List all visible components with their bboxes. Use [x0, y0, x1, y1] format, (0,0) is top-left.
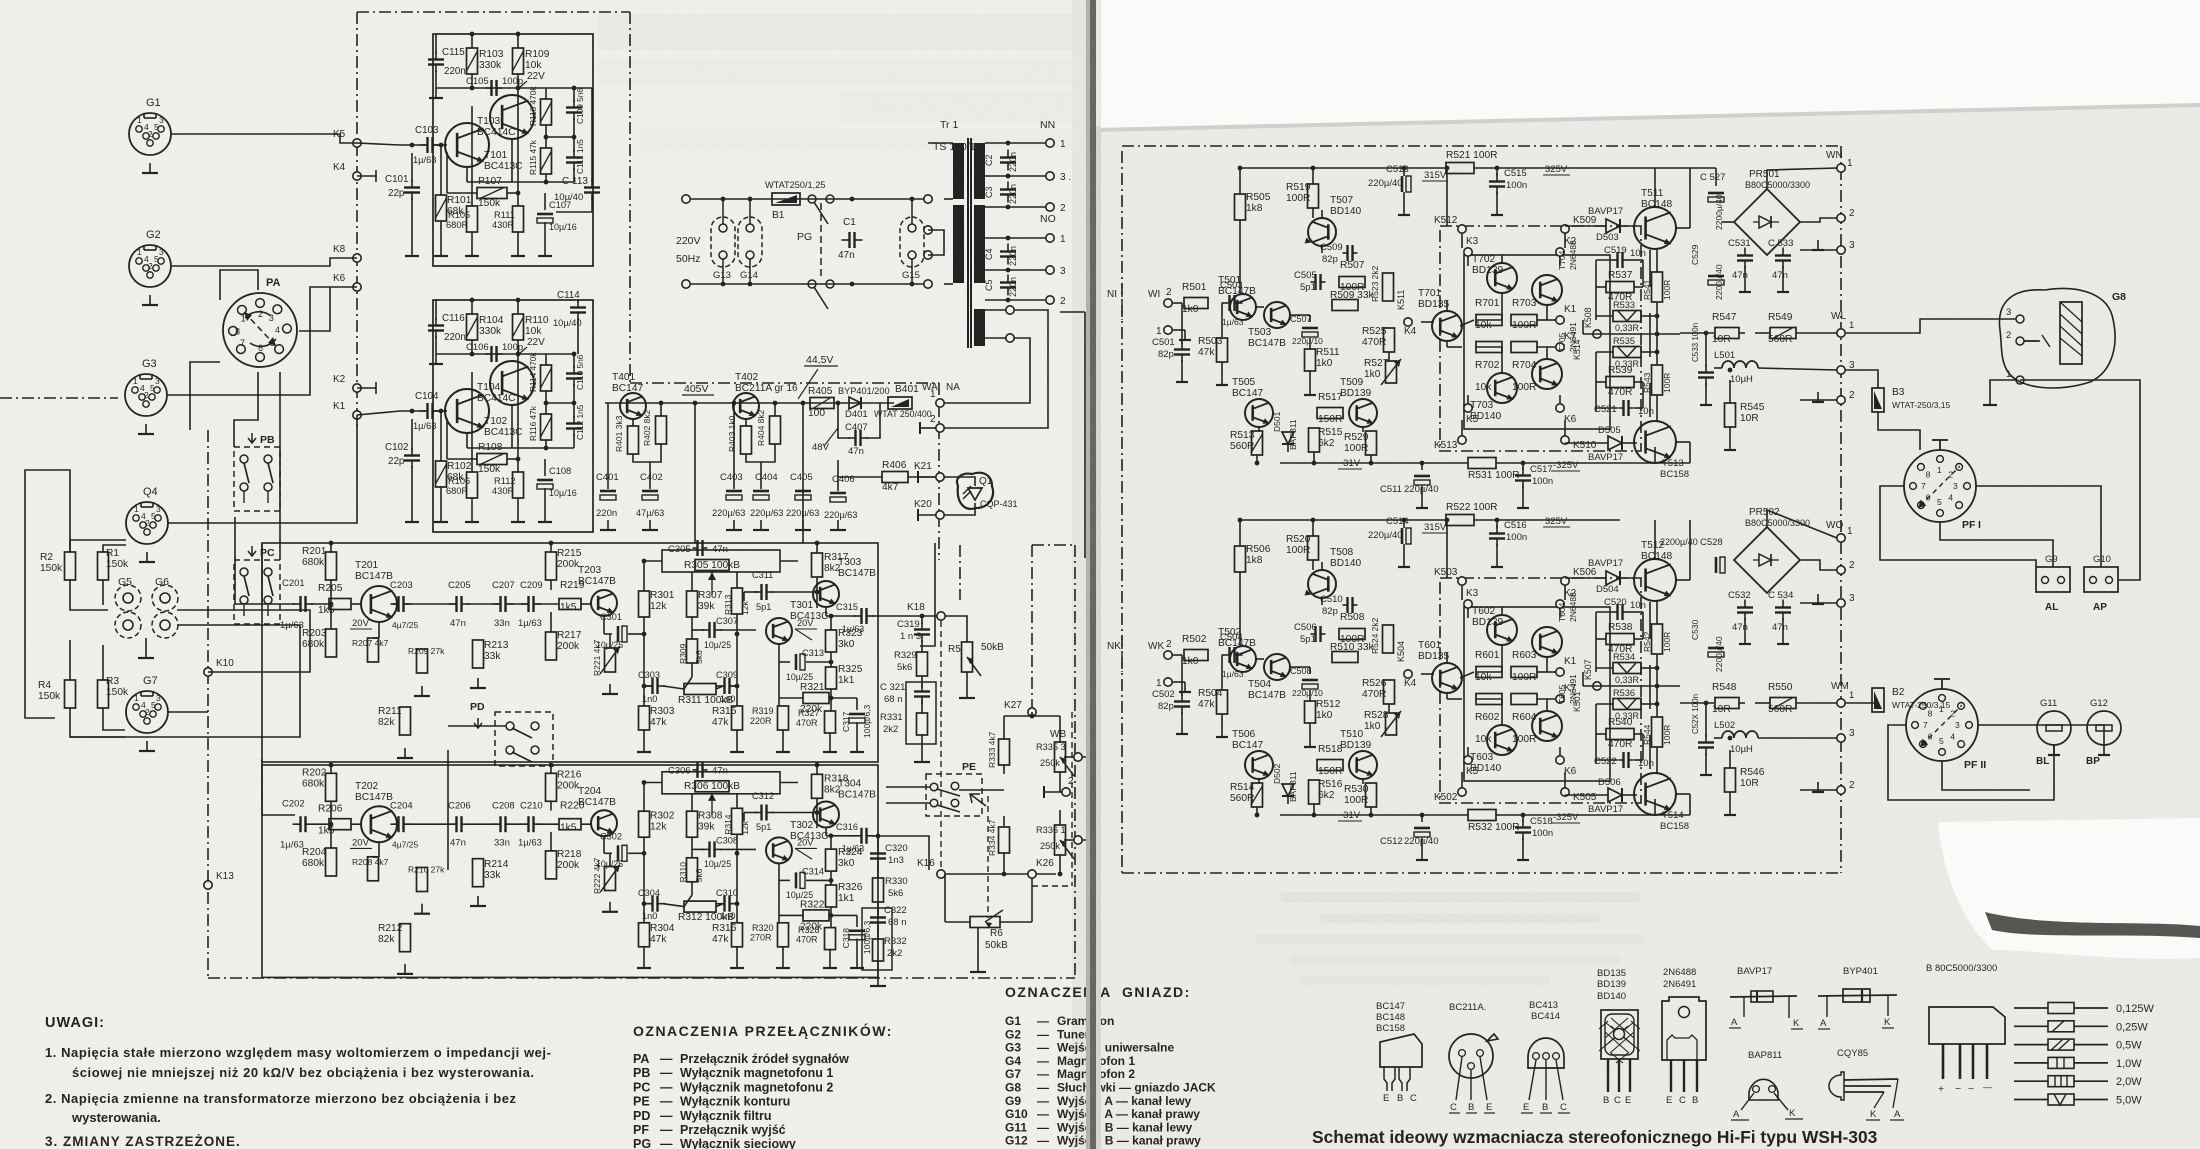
- ground: [1817, 392, 1819, 402]
- wire: [546, 136, 574, 138]
- capacitor C306 47n: [696, 762, 698, 778]
- wire: [1474, 167, 1620, 169]
- wire: [1258, 779, 1260, 783]
- wire: [507, 458, 518, 460]
- resistor R326 1k1: [826, 885, 837, 907]
- ground: [1496, 557, 1498, 567]
- junction: [748, 282, 753, 287]
- capacitor C518 100n: [1515, 826, 1531, 828]
- transformer Tr1 secondary winding: [974, 143, 985, 199]
- resistor R402 8k2: [656, 416, 667, 444]
- wire: [1705, 703, 1707, 737]
- wire: [643, 946, 645, 958]
- ground: [829, 958, 831, 968]
- wire: [507, 823, 527, 825]
- resistor R522 100R: [1446, 515, 1474, 526]
- junction: [735, 901, 740, 906]
- resistor R518 150R: [1317, 760, 1343, 771]
- resistor R521 100R: [1446, 163, 1474, 174]
- wire: [70, 580, 108, 610]
- junction: [1006, 174, 1011, 179]
- resistor R508 100R: [1339, 629, 1365, 640]
- wire: [644, 685, 651, 687]
- connector G3 (DIN): [125, 374, 167, 416]
- capacitor C320 1n3: [870, 852, 886, 854]
- wire: [743, 813, 745, 822]
- junction: [1255, 813, 1260, 818]
- wire: [1596, 667, 1613, 669]
- wire: [1403, 168, 1405, 176]
- ground: [649, 520, 651, 530]
- ground: [1421, 850, 1423, 860]
- junction: [642, 632, 647, 637]
- capacitor C112 1n5: [566, 422, 582, 424]
- capacitor C514 220µ/40: [1401, 528, 1404, 544]
- wire: [780, 560, 798, 562]
- wire: [517, 74, 519, 88]
- capacitor C502 82p: [1174, 700, 1190, 702]
- wire: [330, 801, 332, 849]
- wire: [550, 612, 552, 632]
- wire: [1564, 233, 1566, 248]
- wire: [691, 793, 693, 812]
- wire: [1064, 839, 1074, 841]
- transistor T103 BC414C: [490, 95, 534, 139]
- wire: [1564, 420, 1566, 436]
- junction: [1655, 684, 1660, 689]
- wire: [1522, 486, 1524, 498]
- wire: [1421, 815, 1423, 822]
- transistor T201 BC147B: [361, 586, 397, 622]
- wire: [1755, 702, 1770, 704]
- resistor R539 470R: [1606, 377, 1634, 388]
- capacitor C2 220n: [1000, 156, 1016, 158]
- wire: [1447, 698, 1462, 700]
- wire: [1522, 815, 1524, 822]
- wire: [826, 835, 856, 837]
- transistor T601 BD135: [1432, 663, 1462, 693]
- bridge rectifier PR501 B80C5000/3300: [1734, 189, 1800, 255]
- wire: [1461, 772, 1463, 788]
- resistor R701 10k: [1476, 315, 1502, 326]
- capacitor C303 1n0: [651, 678, 653, 694]
- capacitor C316 1µ/63: [860, 828, 862, 844]
- wire: [517, 300, 519, 314]
- resistor R537 470R: [1606, 282, 1634, 293]
- bridge rectifier PR502 B80C5000/3300: [1734, 527, 1800, 593]
- junction: [1311, 518, 1316, 523]
- wire: [816, 577, 818, 608]
- resistor R516 6k2: [1309, 780, 1320, 804]
- node K18: [937, 612, 945, 620]
- wire: [573, 88, 575, 102]
- resistor R215 200k: [546, 552, 557, 580]
- wire: [779, 879, 790, 881]
- ground: [1817, 240, 1819, 250]
- transistor T602 BD139: [1487, 615, 1517, 645]
- wire: [1650, 814, 1690, 816]
- wire: [1758, 737, 1837, 739]
- resistor R101 68k: [436, 195, 447, 221]
- ground: [149, 295, 151, 305]
- junction: [1445, 518, 1450, 523]
- wire: [643, 571, 645, 573]
- wire: [694, 403, 696, 543]
- capacitor C533 47n: [1775, 254, 1791, 256]
- connector G10: [2084, 567, 2118, 592]
- wire: [920, 427, 936, 429]
- enclosure boundary: [357, 11, 630, 13]
- wire: [1596, 759, 1618, 761]
- connector G9: [2036, 567, 2070, 592]
- junction: [470, 352, 475, 357]
- inductor L502: [1722, 731, 1758, 738]
- switch PE: [926, 774, 982, 816]
- transistor T303 BC147B: [813, 581, 839, 607]
- wire: [877, 836, 879, 848]
- junction: [516, 352, 521, 357]
- wire: [447, 192, 477, 194]
- wire: [1634, 407, 1643, 409]
- wire: [70, 625, 300, 737]
- resistor R538 470R: [1606, 634, 1634, 645]
- resistor R603 100R: [1511, 667, 1537, 678]
- enclosure boundary: [1074, 545, 1076, 978]
- wire: [357, 175, 376, 177]
- resistor R507 100R: [1339, 277, 1365, 288]
- junction: [572, 352, 577, 357]
- node K505: [1561, 788, 1569, 796]
- wire: [1634, 759, 1643, 761]
- wire: [1280, 462, 1468, 464]
- wire: [517, 498, 519, 512]
- connector G7 (DIN): [126, 691, 168, 733]
- node K7: [1556, 695, 1564, 703]
- ground: [1403, 205, 1405, 215]
- ground: [733, 520, 735, 530]
- wire: [357, 387, 376, 389]
- wire: [1755, 332, 1770, 334]
- node 1: [1164, 326, 1172, 334]
- resistor R509 33k: [1332, 300, 1358, 311]
- fuse B401: [888, 397, 912, 409]
- junction: [516, 457, 521, 462]
- capacitor C505 5p1: [1314, 274, 1316, 290]
- node 2: [1837, 214, 1845, 222]
- junction: [815, 810, 820, 815]
- ground: [2053, 745, 2055, 755]
- wire: [1642, 734, 1644, 760]
- capacitor C309 1n0: [723, 678, 725, 694]
- transistor T507 BD140: [1308, 218, 1336, 246]
- wire: [720, 629, 756, 631]
- wire: [1649, 250, 1651, 287]
- node 2: [936, 424, 944, 432]
- wire: [644, 903, 651, 905]
- transistor T604 2N6488: [1532, 627, 1562, 657]
- resistor R301 12k: [639, 591, 650, 617]
- wire: [1676, 579, 1690, 581]
- resistor R219 1k5: [559, 599, 581, 610]
- capacitor C531 47n: [1737, 254, 1753, 256]
- wire: [1758, 368, 1837, 370]
- wire: [102, 645, 104, 680]
- junction: [329, 822, 334, 827]
- wire: [1476, 698, 1502, 700]
- transistor T503 BC147B: [1264, 302, 1290, 328]
- transistor T301 BC413C: [766, 618, 792, 644]
- resistor R208 4k7: [368, 857, 379, 881]
- wire: [545, 174, 547, 182]
- wire: [609, 853, 611, 867]
- ground: [435, 354, 437, 364]
- wire: [816, 765, 818, 775]
- wire: [1003, 853, 1005, 874]
- wire: [1800, 218, 1837, 222]
- node: [1006, 306, 1014, 314]
- wire: [544, 488, 546, 512]
- wire: [351, 603, 361, 605]
- wire: [517, 340, 519, 354]
- wire: [1649, 383, 1651, 417]
- wire: [1596, 638, 1606, 640]
- wire: [550, 801, 552, 811]
- wire: [550, 580, 552, 590]
- wire: [825, 827, 827, 836]
- resistor R106 680R: [467, 472, 478, 498]
- ground: [736, 742, 738, 752]
- wire: [1501, 699, 1503, 725]
- junction: [642, 780, 647, 785]
- ground stub: [917, 471, 919, 483]
- wire: [517, 232, 519, 246]
- wire: [471, 300, 473, 314]
- wire: [1181, 303, 1183, 344]
- box around C321/R331: [906, 682, 936, 744]
- wire: [1596, 611, 1613, 613]
- node K5: [353, 139, 361, 147]
- wire: [1620, 225, 1638, 227]
- wire: [311, 823, 329, 825]
- wire: [920, 543, 935, 646]
- wire: [830, 836, 832, 850]
- wire: [1800, 560, 1837, 570]
- junction: [1704, 701, 1709, 706]
- resistor R105 680R: [467, 206, 478, 232]
- wire: [985, 175, 1046, 177]
- wire: [1467, 256, 1469, 266]
- wire: [511, 405, 513, 448]
- wire: [782, 946, 784, 958]
- wire: [1641, 667, 1657, 669]
- thyristor Q1 DQP-431: [957, 473, 993, 509]
- resistor R309 5k6: [687, 639, 698, 663]
- connector Q4 (DIN): [126, 502, 168, 544]
- ground: [609, 684, 611, 694]
- inductor L501: [1722, 361, 1758, 368]
- wire: [1705, 753, 1707, 765]
- resistor R334 4k7: [999, 827, 1010, 853]
- wire: [959, 789, 1004, 791]
- output stage inner box: [1464, 607, 1610, 781]
- wire: [1370, 455, 1372, 463]
- enclosure boundary: [938, 383, 940, 560]
- wire: [1461, 585, 1463, 600]
- node: [1006, 334, 1014, 342]
- junction: [1058, 872, 1063, 877]
- wire: [1714, 367, 1722, 369]
- ground: [145, 648, 147, 658]
- wire: [1546, 305, 1548, 320]
- wire: [448, 725, 506, 727]
- ground: [1522, 850, 1524, 860]
- potentiometer R6 50kB: [970, 917, 1000, 928]
- wire: [1000, 921, 1032, 923]
- resistor R526 470R: [1384, 680, 1395, 704]
- switch PB: [234, 447, 280, 511]
- capacitor C521 10n: [1622, 400, 1624, 416]
- wire: [690, 283, 925, 285]
- ground: [440, 512, 442, 522]
- fuse B1: [772, 193, 800, 205]
- resistor R207 4k7: [368, 638, 379, 662]
- wire: [1003, 816, 1005, 826]
- ground: [411, 246, 413, 256]
- wire: [1309, 338, 1311, 349]
- wire: [1559, 395, 1561, 404]
- connector G5 (jack pair): [115, 585, 141, 611]
- junction: [815, 763, 820, 768]
- wire: [1403, 192, 1405, 205]
- resistor R321 220k: [803, 693, 829, 704]
- resistor R520 100R: [1308, 536, 1319, 560]
- wire: [1460, 320, 1474, 326]
- resistor R304 47k: [639, 923, 650, 947]
- wire: [279, 372, 281, 560]
- wire: [877, 864, 879, 878]
- wire: [467, 447, 512, 449]
- junction: [544, 180, 549, 185]
- resistor R322 220k: [803, 910, 829, 921]
- diode D502: [1282, 784, 1294, 796]
- wire: [1121, 283, 1123, 320]
- resistor R307 39k: [687, 591, 698, 617]
- power rating legend 5,0W: [2014, 1099, 2048, 1101]
- wire: [806, 879, 831, 881]
- ground: [1221, 727, 1223, 737]
- junction: [693, 401, 698, 406]
- junction: [329, 602, 334, 607]
- capacitor C308 10µ/25: [708, 841, 710, 857]
- wire: [1496, 168, 1498, 176]
- capacitor C207 33n: [499, 596, 501, 612]
- wire: [1596, 407, 1618, 409]
- junction: [1006, 141, 1011, 146]
- wire: [1559, 608, 1561, 618]
- trimmer arrow R305: [711, 572, 713, 595]
- wire: [1800, 249, 1837, 251]
- wire: [1705, 333, 1707, 367]
- wire: [743, 592, 745, 601]
- wire: [511, 139, 513, 182]
- wire: [1537, 346, 1556, 348]
- transistor T512 BC148: [1634, 559, 1676, 601]
- wire: [780, 782, 798, 784]
- junction: [516, 32, 521, 37]
- wire: [1446, 168, 1448, 226]
- node 1: [1837, 164, 1845, 172]
- wire: [736, 946, 738, 958]
- capacitor C401 220n: [600, 490, 616, 493]
- ground: [856, 958, 858, 968]
- wire: [945, 616, 967, 642]
- wire: [1059, 810, 1061, 825]
- wire: [1321, 598, 1323, 605]
- junction: [1030, 714, 1035, 719]
- resistor R4 150k: [65, 680, 76, 708]
- connector G15: [900, 217, 924, 267]
- wire: [1649, 313, 1651, 357]
- wire: [1181, 655, 1183, 696]
- wire: [545, 440, 547, 448]
- resistor R501 1k0: [1184, 298, 1208, 309]
- capacitor C315 1µ/63: [860, 608, 862, 624]
- ground: [1744, 282, 1746, 292]
- wire: [643, 837, 645, 923]
- wire: [778, 880, 780, 923]
- diode D401: [849, 397, 861, 409]
- junction: [544, 401, 549, 406]
- ground: [921, 752, 923, 762]
- resistor R519 100R: [1308, 184, 1319, 208]
- wire: [605, 402, 894, 404]
- wire: [471, 372, 473, 472]
- wire: [573, 434, 575, 448]
- wire: [447, 750, 449, 870]
- wire: [591, 88, 593, 182]
- enclosure boundary: [208, 977, 1075, 979]
- wire: [1031, 712, 1033, 716]
- wire: [928, 142, 953, 144]
- resistor R704 100R: [1511, 342, 1537, 353]
- wire: [1705, 383, 1707, 395]
- ground: [1705, 765, 1707, 775]
- wire: [262, 543, 295, 604]
- wire: [684, 677, 692, 689]
- wire: [1121, 635, 1123, 672]
- capacitor C104 1µ/63: [426, 403, 428, 419]
- junction: [735, 851, 740, 856]
- wire: [918, 476, 936, 478]
- resistor R217 200k: [546, 632, 557, 660]
- wire: [1729, 380, 1731, 403]
- wire: [1501, 347, 1503, 373]
- wire: [1172, 654, 1182, 656]
- wire: [603, 836, 605, 854]
- wire: [985, 237, 1046, 239]
- junction: [1006, 268, 1011, 273]
- wire: [127, 611, 129, 612]
- junction: [801, 401, 806, 406]
- enclosure boundary: [356, 12, 358, 430]
- wire: [802, 403, 804, 543]
- junction: [1255, 461, 1260, 466]
- wire: [1564, 585, 1566, 600]
- wire: [985, 309, 1006, 311]
- connector G13: [711, 217, 735, 267]
- ground: [1744, 634, 1746, 644]
- wire: [643, 730, 645, 742]
